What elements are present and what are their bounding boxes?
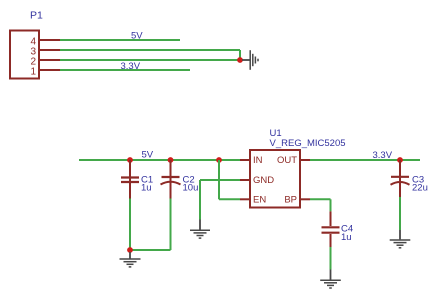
junction EN tap — [216, 157, 222, 163]
svg-text:P1: P1 — [30, 10, 43, 22]
op-amp U1 body — [250, 150, 300, 208]
svg-text:BP: BP — [284, 195, 297, 206]
pin 2 stub — [39, 59, 60, 61]
ground stub below C1 — [129, 252, 131, 259]
pin 4 stub — [39, 39, 60, 41]
ground symbol right — [250, 50, 258, 70]
ground stub C4 — [330, 270, 332, 280]
svg-text:IN: IN — [253, 155, 263, 166]
wire C2 bottom — [170, 199, 172, 251]
ground symbol GND pin — [190, 230, 210, 238]
ground symbol C4 — [320, 280, 341, 288]
capacitor C3 curved plate — [391, 182, 410, 185]
wire C1-C2 bottom bus — [130, 249, 171, 251]
wire C1 bottom — [129, 199, 131, 251]
connector P1 — [10, 31, 39, 79]
svg-text:1u: 1u — [141, 183, 152, 194]
capacitor C1 plates — [121, 176, 139, 178]
wire pin3 vertical drop — [239, 50, 241, 60]
ground stub C3 — [399, 230, 401, 239]
wire from pin 3 — [60, 49, 240, 51]
junction GND top — [237, 57, 243, 63]
wire to ground right — [242, 59, 250, 61]
wire 5V rail — [79, 159, 240, 161]
wire GND net — [200, 179, 240, 181]
svg-text:OUT: OUT — [277, 155, 297, 166]
junction C1 — [127, 157, 133, 163]
capacitor C4 lead bottom — [330, 234, 332, 247]
wire 3.3V from pin 1 — [60, 69, 190, 71]
IC U1 pin stubs — [240, 159, 250, 161]
capacitor C1 lead top — [129, 160, 131, 199]
wire C4 bottom — [330, 247, 332, 270]
svg-text:10u: 10u — [183, 183, 199, 194]
wire 5V from pin 4 — [60, 39, 180, 41]
capacitor C2 curved plate — [161, 182, 181, 185]
capacitor C4 lead top — [330, 211, 332, 226]
svg-text:1: 1 — [30, 67, 36, 78]
capacitor C4 plates — [322, 226, 340, 228]
svg-text:GND: GND — [253, 175, 274, 186]
capacitor C3 lead — [399, 160, 401, 197]
svg-text:3.3V: 3.3V — [373, 150, 393, 161]
pin 1 stub — [39, 69, 60, 71]
capacitor C2 top plate — [162, 176, 180, 178]
ground symbol C3 — [390, 240, 411, 248]
wire from pin 2 — [60, 59, 240, 61]
capacitor C2 lead — [170, 160, 172, 199]
wire C3 bottom — [399, 197, 401, 230]
svg-text:5V: 5V — [142, 150, 154, 161]
pin 3 stub — [39, 49, 60, 51]
svg-text:EN: EN — [253, 195, 266, 206]
wire BP to C4 — [310, 198, 331, 200]
svg-text:5V: 5V — [131, 31, 143, 42]
svg-text:V_REG_MIC5205: V_REG_MIC5205 — [270, 138, 346, 149]
svg-text:3.3V: 3.3V — [121, 61, 141, 72]
wire 3.3V rail — [310, 159, 420, 161]
svg-text:22u: 22u — [412, 183, 428, 194]
ground symbol below C1 — [120, 259, 141, 267]
wire EN horizontal — [219, 198, 240, 200]
ground stub GND pin — [199, 220, 201, 230]
junction C2 — [168, 157, 174, 163]
junction bottom — [127, 247, 133, 253]
wire EN vertical — [218, 160, 220, 199]
junction C3 — [397, 157, 403, 163]
capacitor C3 top plate — [391, 176, 409, 178]
svg-text:1u: 1u — [341, 232, 352, 243]
